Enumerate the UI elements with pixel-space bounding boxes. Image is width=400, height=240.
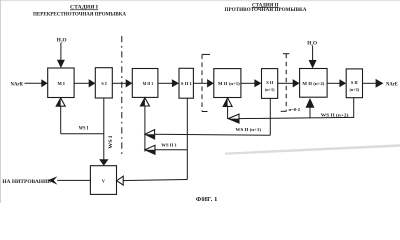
svg-text:NArR: NArR	[11, 82, 24, 88]
svg-text:n=0-2: n=0-2	[289, 107, 301, 112]
box mixer M II (n+1)	[214, 69, 241, 98]
svg-text:WS II 1: WS II 1	[161, 143, 177, 148]
arrowhead into S I	[89, 79, 96, 87]
box vessel V	[90, 166, 116, 195]
wire into V right side	[123, 180, 187, 181]
arrowhead (open) into V right side	[117, 176, 124, 185]
box mixer M II (n+2)	[300, 69, 328, 98]
box separator S I	[95, 68, 112, 98]
arrowhead (open) WS II (n+2) into riser	[228, 114, 239, 123]
wire WS II (n+2) long horizontal	[239, 117, 354, 118]
wire branch up into M II (n+2)	[309, 108, 311, 119]
dashed bracket right side	[285, 54, 287, 112]
wire riser below M II 1	[144, 106, 146, 152]
svg-text:М II (n+1): М II (n+1)	[218, 81, 240, 86]
wire WS II 1 horizontal	[155, 149, 187, 151]
svg-text:WS II (n+2): WS II (n+2)	[321, 112, 349, 117]
wire riser below M II (n+1)	[227, 106, 229, 118]
wire M I to S I	[74, 82, 89, 84]
svg-text:WS I: WS I	[109, 135, 114, 148]
svg-text:WS II (n+1): WS II (n+1)	[236, 127, 262, 132]
arrowhead into S II (n+1)	[254, 79, 261, 87]
svg-text:М I: М I	[58, 81, 65, 86]
wire S II 1 bottom outlet down	[186, 98, 188, 179]
svg-text:(n+1): (n+1)	[265, 87, 275, 92]
svg-text:(n+2): (n+2)	[349, 87, 359, 92]
svg-text:S II: S II	[266, 80, 273, 85]
arrowhead H2O into M II (n+2) top	[309, 60, 317, 69]
wire H2O into M II (n+2)	[312, 46, 314, 60]
svg-text:М II (n+2): М II (n+2)	[302, 81, 325, 86]
arrowhead H2O into M I top	[57, 60, 65, 68]
wire S I bottom outlet down to V	[103, 98, 105, 159]
arrowhead (open) up into M I bottom	[56, 98, 65, 106]
dashed bracket bottom-right tick	[281, 110, 287, 112]
wire NArR feed	[25, 82, 42, 84]
arrowhead up into M II (n+2) bottom	[306, 98, 315, 108]
wire S II (n+2) to NArE outlet	[363, 82, 376, 84]
svg-text:ПРОТИВОТОЧНАЯ ПРОМЫВКА: ПРОТИВОТОЧНАЯ ПРОМЫВКА	[225, 8, 307, 13]
wire WS I recycle riser below M I	[60, 106, 62, 134]
wire S II (n+1) to M II (n+2)	[278, 82, 293, 84]
wire WS I horizontal	[61, 133, 104, 135]
svg-text:ПЕРЕКРЕСТНОТОЧНАЯ ПРОМЫВКА: ПЕРЕКРЕСТНОТОЧНАЯ ПРОМЫВКА	[33, 13, 126, 18]
scan artifact: left edge line	[0, 0, 2, 203]
arrowhead into M II 1	[126, 79, 133, 87]
box mixer M II 1	[132, 69, 158, 98]
dashed bracket top-right tick	[283, 53, 289, 55]
svg-text:H2O: H2O	[57, 37, 67, 43]
svg-text:НА НИТРОВАНИЕ: НА НИТРОВАНИЕ	[2, 180, 51, 185]
dashed bracket bottom-left tick	[202, 111, 208, 113]
arrowhead (open) up into M II (n+1) bottom	[223, 98, 232, 107]
wire S II (n+1) bottom outlet down	[269, 98, 271, 135]
wire S I to M II 1	[112, 82, 126, 84]
svg-text:H2O: H2O	[307, 41, 317, 47]
arrowhead into S II (n+2)	[339, 79, 346, 87]
arrowhead into S II 1	[172, 79, 179, 87]
wire M II (n+2) to S II (n+2)	[327, 82, 339, 84]
svg-text:S II 1: S II 1	[181, 81, 192, 86]
arrowhead NArE outlet	[376, 79, 384, 88]
svg-text:V: V	[102, 178, 106, 183]
svg-text:ФИГ. 1: ФИГ. 1	[196, 197, 218, 203]
svg-text:S I: S I	[101, 81, 107, 86]
arrowhead down into V top	[99, 159, 108, 166]
box separator S II (n+1)	[262, 69, 278, 99]
arrowhead (open) WS II 1 into riser	[145, 145, 155, 154]
svg-text:М II 1: М II 1	[143, 81, 154, 86]
header: СТАДИЯ II (underlined)	[252, 3, 279, 8]
wire H2O into M I	[60, 43, 62, 60]
arrowhead into M I	[41, 79, 47, 87]
arrowhead (open) up into M II 1 bottom	[140, 98, 149, 106]
wire WS II (n+1) horizontal	[155, 134, 271, 135]
svg-text:WS I: WS I	[79, 127, 89, 132]
box separator S II (n+2)	[346, 69, 362, 98]
arrowhead (open) WS II (n+1) into riser	[145, 130, 155, 139]
arrowhead into M II (n+2)	[293, 79, 300, 87]
box separator S II 1	[179, 68, 193, 98]
arrowhead to nitration (left)	[48, 176, 58, 184]
wire S II (n+2) bottom outlet down	[353, 98, 355, 118]
scan artifact: faint streak right	[225, 144, 400, 155]
wire M II 1 to S II 1	[158, 82, 172, 84]
stage divider dash-dot line	[121, 36, 123, 155]
svg-text:NArE: NArE	[386, 82, 398, 88]
arrowhead into M II (n+1)	[207, 79, 214, 87]
header: СТАДИЯ I (underlined)	[70, 6, 98, 11]
dashed bracket around repeated section (left side)	[201, 54, 203, 111]
svg-text:S II: S II	[351, 80, 358, 85]
wire M II (n+1) to S II (n+1)	[241, 82, 255, 84]
scan artifact: top edge line	[0, 0, 400, 2]
dashed bracket top-left tick	[202, 53, 210, 55]
box mixer M I	[48, 68, 74, 98]
wire V outlet to nitration	[57, 179, 90, 181]
wire S II 1 to M II (n+1)	[193, 82, 207, 84]
